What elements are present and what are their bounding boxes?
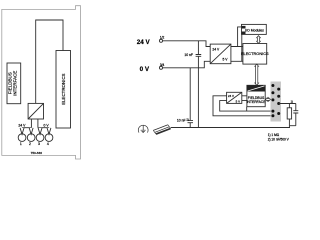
svg-text:INTERFACE: INTERFACE (246, 100, 266, 104)
U2 output wires to fieldbus interface (242, 96, 247, 101)
svg-text:5 V: 5 V (223, 57, 229, 61)
wire from DC/DC converter to electronics (left diagram) (36, 20, 63, 103)
svg-text:1): 1) (291, 101, 293, 104)
terminal 4 (45, 134, 53, 142)
svg-text:1/2: 1/2 (160, 36, 165, 40)
svg-text:10 nF: 10 nF (177, 118, 186, 122)
arrow electronics to fieldbus interface (255, 64, 259, 85)
wire W2 bus power loop inner (220, 101, 273, 112)
shield wire (279, 103, 296, 105)
svg-text:24 V: 24 V (212, 47, 220, 51)
electronics block (left diagram) (56, 51, 71, 129)
svg-text:1: 1 (20, 142, 22, 146)
DC/DC converter block (left diagram) (28, 103, 43, 119)
svg-text:0 V: 0 V (44, 124, 50, 128)
terminal 1 (18, 134, 26, 142)
svg-text:3: 3 (38, 142, 40, 146)
fieldbus connector strip (271, 82, 282, 122)
I/O module contact lower (242, 32, 246, 35)
capacitor C3 (289, 104, 298, 128)
svg-text:ELECTRONICS: ELECTRONICS (61, 74, 66, 105)
wire to I/O modules lower pin (241, 33, 243, 61)
DIN rail symbol (153, 125, 170, 134)
fieldbus interface ground stub (246, 107, 248, 111)
svg-text:10 nF: 10 nF (184, 53, 193, 57)
24V rail wire (163, 41, 211, 47)
svg-text:2) 10 nF/500 V: 2) 10 nF/500 V (268, 138, 290, 142)
svg-text:4: 4 (47, 142, 49, 146)
terminal 3 (36, 134, 44, 142)
svg-text:24 V: 24 V (228, 94, 234, 98)
0V rail wire (163, 61, 211, 68)
svg-text:24 V: 24 V (137, 39, 151, 46)
DC/DC converter 24V/5V fieldbus supply U2 (227, 92, 242, 103)
svg-text:5 V: 5 V (236, 100, 240, 104)
svg-text:ELECTRONICS: ELECTRONICS (241, 51, 269, 56)
svg-text:2: 2 (29, 142, 31, 146)
I/O Modules box (242, 24, 267, 34)
fieldbus interface block (left diagram) (7, 63, 21, 104)
svg-text:I/O Modules: I/O Modules (245, 29, 264, 33)
Electronics box (right schematic) (243, 44, 267, 65)
24V supply terminal (right schematic) (159, 39, 162, 42)
svg-text:24 V: 24 V (18, 124, 26, 128)
supply wiring to terminals (left diagram) (22, 119, 49, 129)
earth symbol (138, 125, 148, 132)
arrow fieldbus interface to connector (266, 98, 271, 102)
svg-text:3/4: 3/4 (160, 63, 165, 67)
connector pins left column (271, 84, 274, 87)
wire to I/O modules upper pin (238, 27, 242, 47)
svg-text:750-346: 750-346 (31, 151, 43, 155)
I/O module contact upper (242, 26, 246, 29)
svg-text:INTERFACE: INTERFACE (13, 71, 18, 96)
svg-text:2): 2) (186, 118, 188, 122)
wire W1 bus power loop outer (213, 96, 273, 116)
chassis/earth rail (171, 127, 290, 129)
resistor R1 1Mohm (288, 104, 290, 108)
module housing outline (left, gray) (2, 6, 81, 159)
svg-text:FIELDBUS: FIELDBUS (248, 96, 265, 100)
Fieldbus Interface box (right schematic) (247, 85, 265, 106)
capacitor C2 10nF/500V (0V to chassis) (188, 68, 194, 128)
0V supply terminal (right schematic) (159, 66, 162, 69)
connector pins right column (277, 88, 280, 91)
svg-text:0 V: 0 V (140, 66, 150, 73)
terminal 2 (27, 134, 35, 142)
capacitor C1 10nF (24V to chassis) (196, 41, 202, 128)
5V output wires from U1 (231, 47, 243, 62)
arrow I/O modules to electronics (257, 36, 261, 44)
DC/DC converter 24V/5V system supply U1 (210, 44, 231, 64)
